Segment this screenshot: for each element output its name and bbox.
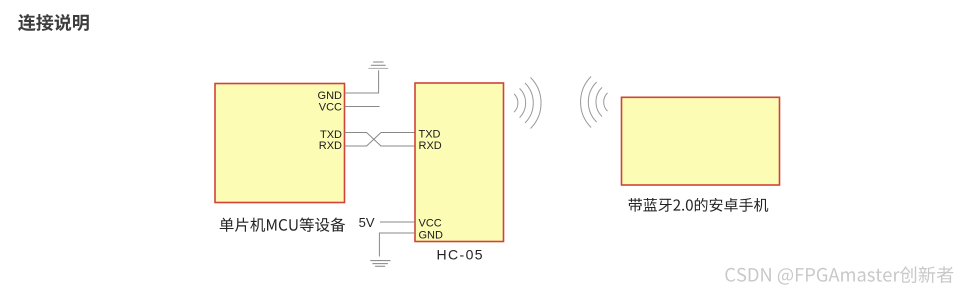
wire MCU RXD to HC-05 TXD (crossover) [345, 133, 416, 147]
svg-text:RXD: RXD [319, 140, 342, 152]
svg-text:GND: GND [318, 90, 343, 102]
watermark CSDN @FPGAmaster创新者 [725, 266, 954, 286]
RF waves from phone [581, 77, 608, 128]
wire HC-05 GND to ground [379, 233, 415, 257]
svg-text:RXD: RXD [419, 140, 442, 152]
wire 5V to HC-05 VCC [380, 221, 415, 223]
RF waves from HC-05 [514, 78, 541, 129]
wire MCU GND to ground [345, 70, 379, 93]
svg-text:GND: GND [419, 230, 444, 242]
label 单片机MCU等设备 [220, 218, 345, 232]
wire MCU VCC stub [345, 106, 380, 108]
title 连接说明 [18, 14, 89, 31]
Android phone block 带蓝牙2.0的安卓手机 [622, 97, 780, 185]
ground symbol (bottom, below HC-05 GND) [370, 261, 390, 267]
svg-text:VCC: VCC [319, 102, 342, 114]
svg-text:VCC: VCC [419, 217, 442, 229]
ground symbol (top, above MCU GND wire) [368, 62, 388, 68]
wire MCU TXD to HC-05 RXD (crossover) [345, 133, 416, 147]
MCU block 单片机MCU等设备 [215, 84, 345, 203]
svg-text:HC-05: HC-05 [437, 247, 484, 263]
svg-text:5V: 5V [359, 215, 375, 230]
svg-text:TXD: TXD [419, 129, 441, 141]
label 带蓝牙2.0的安卓手机 [629, 198, 769, 212]
HC-05 module block [415, 83, 504, 242]
